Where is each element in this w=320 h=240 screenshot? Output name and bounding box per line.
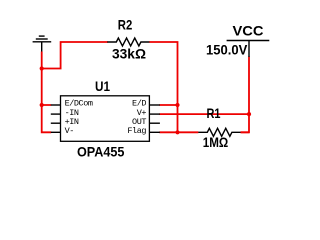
pin Flag stub <box>149 131 160 133</box>
svg-text:VCC: VCC <box>233 24 264 39</box>
wire R2 right to vertical drop <box>149 42 177 132</box>
op-amp U1 body <box>61 96 150 142</box>
svg-text:R1: R1 <box>207 106 221 121</box>
node A junction dot <box>40 66 44 70</box>
node E/DCom junction dot <box>40 103 44 107</box>
wire node A down to E/DCom and V- <box>42 69 52 133</box>
wire E/D pin to vertical <box>159 104 177 106</box>
svg-text:V-: V- <box>65 126 74 136</box>
wire Flag pin to R1 <box>159 131 198 133</box>
pin E/DCom stub <box>51 104 61 106</box>
pin E/D stub <box>149 104 160 106</box>
power VCC symbol <box>227 41 270 58</box>
node E/D junction dot <box>175 103 179 107</box>
wire node A right and up to R2 <box>42 42 108 69</box>
svg-text:OPA455: OPA455 <box>77 144 125 159</box>
wire R1 right to VCC drop <box>241 131 249 133</box>
resistor R2 <box>107 38 150 46</box>
ground <box>33 36 52 52</box>
node Flag junction dot <box>175 130 179 134</box>
svg-text:33kΩ: 33kΩ <box>112 47 146 62</box>
resistor R1 <box>198 128 241 136</box>
svg-text:150.0V: 150.0V <box>206 43 248 58</box>
node V+ junction dot <box>247 112 251 116</box>
svg-text:1MΩ: 1MΩ <box>203 135 229 150</box>
pin V- stub <box>51 131 61 133</box>
svg-text:R2: R2 <box>118 18 133 33</box>
pin +IN stub <box>51 122 61 124</box>
wire VCC drop <box>241 57 249 133</box>
pin -IN stub <box>51 113 61 115</box>
wire ground stem to node A <box>41 52 43 69</box>
pin OUT stub <box>149 122 160 124</box>
svg-text:U1: U1 <box>95 79 110 94</box>
pin V+ stub <box>149 113 160 115</box>
wire V+ pin to VCC drop <box>159 113 249 115</box>
svg-text:Flag: Flag <box>127 126 146 136</box>
